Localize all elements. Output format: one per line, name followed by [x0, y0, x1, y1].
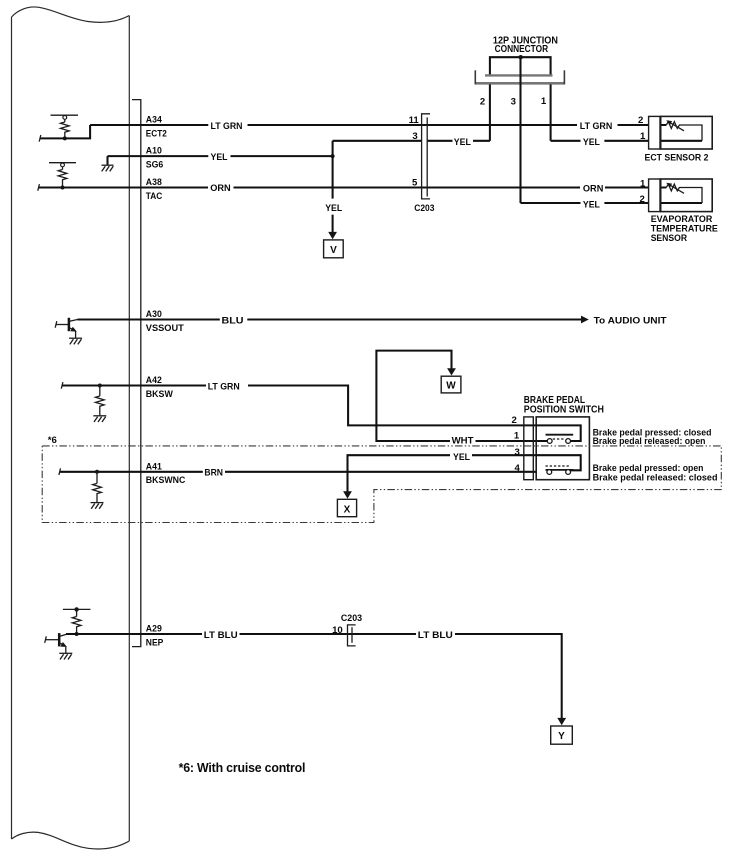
wire end tick A38 internal — [38, 184, 40, 191]
resistor (A38 circuit) — [58, 167, 67, 188]
svg-text:*6: With cruise control: *6: With cruise control — [179, 760, 306, 775]
ground (A42 circuit) — [93, 415, 106, 417]
junction pin 2 vertical — [489, 84, 491, 140]
ground (A29 circuit) — [59, 652, 72, 654]
svg-text:YEL: YEL — [583, 137, 600, 148]
connector box V — [324, 240, 344, 258]
wire A34 LT GRN segment 2 — [248, 124, 578, 126]
svg-text:CONNECTOR: CONNECTOR — [495, 44, 549, 55]
svg-text:X: X — [344, 504, 351, 515]
wire YEL branch vertical (to C203 pin 3 / to V) — [332, 141, 334, 232]
svg-text:1: 1 — [541, 96, 547, 107]
svg-text:10: 10 — [332, 625, 343, 636]
svg-text:2: 2 — [480, 96, 485, 107]
wire A42 LT GRN segment 2 with corner to switch pin 2 — [248, 386, 536, 426]
thermistor arrow (evaporator sensor) — [669, 185, 684, 194]
svg-text:LT BLU: LT BLU — [204, 630, 238, 641]
svg-text:BRN: BRN — [204, 467, 223, 478]
svg-text:*6: *6 — [48, 435, 57, 446]
ground (A41 circuit) — [91, 502, 104, 504]
switch lower right terminal circle — [566, 470, 571, 475]
wire YEL from switch pin 3 — [348, 455, 537, 492]
svg-text:11: 11 — [409, 115, 420, 126]
svg-text:NEP: NEP — [146, 637, 164, 648]
resistor (A41 circuit) — [93, 472, 102, 502]
svg-text:YEL: YEL — [583, 199, 600, 210]
transistor Q (A30 VSSOUT) base bar — [68, 318, 71, 331]
wire A29 LT BLU segment 2 — [240, 633, 417, 635]
brake pedal switch body box — [536, 417, 589, 480]
svg-text:3: 3 — [511, 96, 516, 107]
resistor (A34 circuit) — [61, 119, 70, 138]
junction dot (A29 circuit) — [75, 632, 79, 636]
connector C203 right blade — [426, 117, 428, 196]
svg-text:YEL: YEL — [453, 452, 470, 463]
svg-text:2: 2 — [512, 415, 517, 426]
thermistor element (ECT sensor) — [666, 122, 702, 141]
svg-text:POSITION SWITCH: POSITION SWITCH — [524, 405, 604, 416]
connector C203 pin 10 left blade — [348, 625, 356, 646]
wire A30 BLU segment 2 (to audio unit) — [247, 318, 581, 320]
wire A10 YEL segment 1 — [108, 155, 209, 157]
connector box X — [337, 499, 356, 516]
wire A41 BRN segment 1 — [60, 471, 203, 473]
ground (A30 circuit) — [69, 337, 82, 339]
svg-text:SG6: SG6 — [146, 160, 164, 171]
svg-text:2: 2 — [640, 194, 645, 205]
junction pin 1 vertical — [550, 84, 552, 140]
svg-text:ORN: ORN — [583, 184, 604, 195]
svg-text:BKSWNC: BKSWNC — [146, 475, 186, 486]
svg-text:BKSW: BKSW — [146, 389, 174, 400]
svg-text:Brake pedal released: closed: Brake pedal released: closed — [593, 473, 718, 483]
junction connector bar lower gray line — [475, 82, 564, 85]
svg-text:A34: A34 — [146, 115, 163, 126]
arrow into Y — [557, 718, 566, 725]
junction connector body box — [490, 57, 551, 75]
transistor Q (A30 VSSOUT) emitter with arrow — [70, 328, 76, 331]
svg-text:3: 3 — [515, 447, 520, 458]
svg-text:V: V — [330, 245, 337, 256]
junction dot (A34 circuit) — [63, 136, 67, 140]
svg-text:TAC: TAC — [146, 191, 163, 202]
evaporator sensor connector strip — [649, 179, 660, 212]
svg-text:WHT: WHT — [452, 436, 474, 447]
svg-text:A38: A38 — [146, 177, 163, 188]
switch upper right terminal circle — [566, 439, 571, 444]
ECM/PCM module torn bottom edge — [12, 832, 130, 849]
wire WHT from switch pin 1 — [376, 351, 547, 441]
transistor Q (A30 VSSOUT) base lead — [56, 324, 68, 326]
svg-text:ECT SENSOR 2: ECT SENSOR 2 — [645, 152, 709, 162]
junction dot (A41 circuit) — [95, 470, 99, 474]
resistor pull-up (A38 circuit) supply circle — [61, 163, 65, 167]
switch upper contact bar — [546, 434, 574, 436]
arrow into V — [328, 232, 337, 239]
svg-text:3: 3 — [412, 131, 417, 142]
wire A41 BRN segment 2 — [225, 471, 536, 473]
svg-text:LT GRN: LT GRN — [580, 121, 613, 132]
resistor pull-up (A34 circuit) supply bar — [51, 114, 79, 116]
switch upper contact loop (pin 2) — [536, 425, 581, 441]
wire A30 BLU segment 1 — [78, 318, 220, 320]
svg-text:EVAPORATOR: EVAPORATOR — [651, 214, 713, 224]
ECM/PCM module left edge — [11, 17, 13, 839]
switch lower contact loop (pin 3) — [536, 455, 581, 470]
svg-text:5: 5 — [412, 177, 418, 188]
svg-text:1: 1 — [514, 430, 520, 441]
svg-text:VSSOUT: VSSOUT — [146, 323, 184, 334]
junction connector bar right tick — [563, 70, 565, 84]
svg-text:Brake pedal released: open: Brake pedal released: open — [593, 436, 706, 446]
junction connector bar upper gray line — [485, 74, 553, 76]
junction pin 3 vertical — [519, 57, 521, 203]
wire A38 ORN segment 1 — [39, 186, 208, 188]
arrow into X — [343, 491, 352, 498]
switch upper dashed contact — [553, 438, 566, 440]
connector box W — [441, 376, 461, 393]
brake pedal switch connector strip — [524, 417, 534, 480]
svg-text:Y: Y — [558, 731, 565, 742]
transistor Q (A29 NEP) collector — [60, 634, 68, 636]
wire A29 LT BLU segment 1 — [66, 633, 202, 635]
svg-text:Brake pedal pressed: open: Brake pedal pressed: open — [593, 463, 704, 473]
svg-text:LT GRN: LT GRN — [208, 382, 240, 393]
svg-text:BLU: BLU — [222, 316, 244, 327]
junction dot (A42 circuit) — [98, 384, 102, 388]
wire end tick A34 internal — [39, 135, 41, 142]
option 6 dash-dot boundary (with cruise control) — [42, 446, 721, 523]
svg-text:YEL: YEL — [325, 203, 342, 214]
switch lower contact bar — [546, 469, 574, 471]
svg-text:4: 4 — [515, 463, 521, 474]
wire A34 internal lower run — [40, 125, 90, 138]
transistor Q (A29 NEP) base lead — [46, 639, 59, 641]
svg-text:2: 2 — [638, 115, 643, 126]
thermistor arrow (ECT sensor) — [669, 122, 684, 131]
switch upper left terminal circle — [547, 439, 552, 444]
connector pin bracket on module — [132, 100, 141, 647]
svg-text:To AUDIO UNIT: To AUDIO UNIT — [594, 316, 667, 327]
ECT sensor 2 connector strip — [649, 116, 660, 149]
resistor (A42 circuit) — [96, 386, 105, 416]
wire A10 YEL segment 2 — [231, 155, 333, 157]
svg-text:A10: A10 — [146, 146, 162, 157]
switch lower dashed contact — [546, 465, 571, 467]
arrow into W — [447, 368, 456, 375]
svg-text:C203: C203 — [341, 613, 362, 624]
resistor pull-up (A29 circuit) supply dot — [74, 607, 78, 611]
resistor (A29 circuit) — [72, 609, 81, 634]
svg-text:A42: A42 — [146, 375, 162, 386]
transistor Q (A29 NEP) emitter with arrow — [60, 643, 65, 646]
svg-text:W: W — [446, 381, 456, 392]
wire YEL to C203 pin 3 — [333, 140, 490, 142]
svg-text:YEL: YEL — [211, 152, 228, 163]
wire LT GRN to ECT sensor 2 pin 2 — [618, 124, 667, 126]
junction dot (A38 circuit) — [61, 186, 65, 190]
svg-text:A29: A29 — [146, 623, 162, 634]
connector box Y — [551, 726, 573, 744]
junction connector bar left tick — [474, 70, 476, 84]
switch lower left terminal circle — [547, 470, 552, 475]
ECT sensor 2 body box — [661, 116, 713, 149]
junction connector internal bus dot — [519, 55, 523, 59]
wire YEL junction pin3 to evaporator sensor pin 2 — [521, 202, 703, 204]
wire A29 LT BLU segment 3 with corner to Y — [455, 634, 562, 719]
transistor Q (A30 VSSOUT) collector — [70, 320, 78, 322]
wire YEL junction pin1 to ECT sensor pin 1 — [551, 140, 702, 142]
junction dot node YEL branch — [331, 154, 335, 158]
ECM/PCM module torn top edge — [12, 7, 130, 22]
thermistor element (evaporator sensor) — [666, 184, 702, 203]
ground (A10 SG6) — [102, 164, 114, 166]
wire A42 LT GRN segment 1 — [62, 384, 206, 386]
ECM/PCM module right edge — [128, 16, 130, 842]
arrow to audio unit — [581, 316, 589, 324]
connector C203 left blade — [422, 114, 430, 199]
wire ORN to evaporator sensor pin 1 — [605, 186, 666, 188]
svg-text:C203: C203 — [414, 203, 434, 214]
resistor pull-up (A34 circuit) supply circle — [63, 116, 67, 120]
connector C203 pin 10 right blade — [351, 627, 353, 643]
svg-text:ECT2: ECT2 — [146, 128, 167, 139]
svg-text:SENSOR: SENSOR — [651, 233, 688, 243]
svg-text:YEL: YEL — [454, 137, 471, 148]
evaporator sensor body box — [661, 179, 713, 212]
svg-text:1: 1 — [640, 178, 646, 189]
internal ground hook (A10 SG6) — [106, 156, 108, 165]
svg-text:A41: A41 — [146, 461, 163, 472]
svg-text:ORN: ORN — [210, 183, 231, 194]
resistor pull-up (A38 circuit) supply bar — [49, 162, 76, 164]
svg-text:1: 1 — [640, 131, 646, 142]
wire A38 ORN segment 2 — [234, 186, 581, 188]
svg-text:A30: A30 — [146, 309, 162, 320]
resistor pull-up (A29 circuit) supply bar — [63, 608, 91, 610]
transistor Q (A29 NEP) base bar — [58, 633, 61, 646]
svg-text:LT BLU: LT BLU — [418, 630, 453, 641]
wire A34 LT GRN segment 1 — [90, 124, 208, 126]
svg-text:LT GRN: LT GRN — [211, 121, 243, 132]
